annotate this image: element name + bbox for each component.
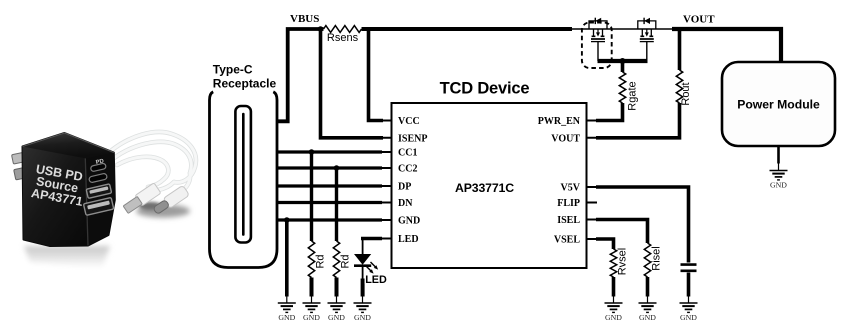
svg-text:Rd: Rd xyxy=(339,254,351,268)
svg-text:CC2: CC2 xyxy=(398,164,417,175)
svg-text:GND: GND xyxy=(605,313,622,322)
svg-text:Power Module: Power Module xyxy=(737,97,820,111)
svg-text:ISEL: ISEL xyxy=(557,215,580,226)
svg-text:Risel: Risel xyxy=(650,246,662,270)
svg-text:GND: GND xyxy=(303,313,320,322)
svg-text:LED: LED xyxy=(398,234,419,245)
svg-text:GND: GND xyxy=(770,181,787,190)
svg-text:GND: GND xyxy=(639,313,656,322)
svg-text:Type-C: Type-C xyxy=(213,63,253,77)
svg-text:VCC: VCC xyxy=(398,116,420,127)
svg-text:V5V: V5V xyxy=(561,183,581,194)
svg-text:TCD Device: TCD Device xyxy=(440,80,530,98)
svg-text:GND: GND xyxy=(680,313,697,322)
svg-text:GND: GND xyxy=(328,313,345,322)
svg-text:ISENP: ISENP xyxy=(398,133,427,144)
svg-text:Rsens: Rsens xyxy=(327,32,359,44)
svg-text:PWR_EN: PWR_EN xyxy=(538,116,581,127)
svg-text:DP: DP xyxy=(398,182,411,193)
svg-text:Rvsel: Rvsel xyxy=(616,248,628,276)
svg-text:VSEL: VSEL xyxy=(554,235,580,246)
svg-text:Receptacle: Receptacle xyxy=(213,76,277,90)
svg-text:AP33771C: AP33771C xyxy=(455,181,514,195)
svg-text:Rgate: Rgate xyxy=(626,81,638,110)
svg-text:FLIP: FLIP xyxy=(557,198,580,209)
svg-text:Rd: Rd xyxy=(314,254,326,268)
svg-text:VOUT: VOUT xyxy=(683,13,715,25)
svg-text:VBUS: VBUS xyxy=(290,13,319,25)
svg-text:CC1: CC1 xyxy=(398,148,417,159)
svg-text:LED: LED xyxy=(365,274,387,286)
svg-text:GND: GND xyxy=(278,313,295,322)
svg-text:VOUT: VOUT xyxy=(551,133,580,144)
svg-text:Rout: Rout xyxy=(680,82,692,105)
svg-text:GND: GND xyxy=(398,216,420,227)
svg-text:DN: DN xyxy=(398,198,413,209)
svg-text:GND: GND xyxy=(354,313,371,322)
